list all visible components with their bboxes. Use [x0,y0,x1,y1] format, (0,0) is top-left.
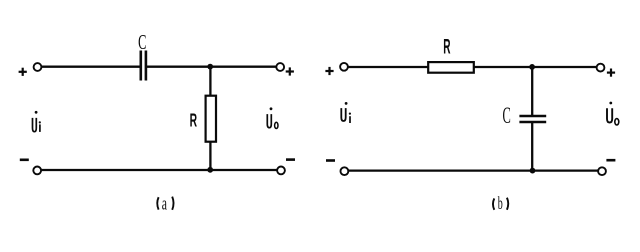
terminal a bottom-left [33,167,41,175]
svg-text:R: R [190,110,197,131]
minus sign b right [606,159,615,162]
label Uo (circuit b) [607,102,619,125]
terminal b top-left [340,63,348,71]
wire b vertical lower [531,123,533,171]
minus sign a left [20,159,29,162]
wire a bottom [41,169,277,171]
wire a top-right [147,66,277,68]
resistor R (circuit b) [428,62,474,73]
wire b bottom [349,169,598,171]
caption (b) [493,194,508,214]
wire b vertical upper [531,67,533,115]
minus sign b left [326,159,335,162]
wire a top-left [41,66,140,68]
node junction b bottom [530,168,536,174]
wire b top-left [348,66,429,68]
terminal b bottom-left [341,167,349,175]
caption (a) [157,194,173,214]
terminal b bottom-right [598,167,606,175]
plus sign a right [286,67,294,75]
terminal a bottom-right [277,167,285,175]
svg-text:C: C [138,29,146,53]
wire a vertical lower [209,142,211,170]
label Uo (circuit a) [267,107,278,128]
terminal b top-right [597,64,605,72]
plus sign b right [607,69,615,77]
capacitor C (circuit a) [141,51,146,81]
terminal a top-right [276,63,284,71]
svg-text:a: a [162,194,167,214]
resistor R (circuit a) [206,96,216,142]
plus sign b left [325,67,333,75]
wire b top-right [474,66,597,68]
svg-text:C: C [503,103,511,129]
terminal a top-left [34,63,42,71]
node junction a bottom [207,167,213,173]
svg-text:R: R [443,36,450,59]
minus sign a right [286,158,295,161]
node junction b top [529,64,535,70]
plus sign a left [19,68,27,76]
capacitor C (circuit b) [519,116,546,122]
svg-text:b: b [498,194,503,214]
node junction a top [207,64,213,70]
label Ui (circuit a) [33,111,41,132]
label Ui (circuit b) [341,102,351,123]
wire a vertical upper [209,67,211,96]
